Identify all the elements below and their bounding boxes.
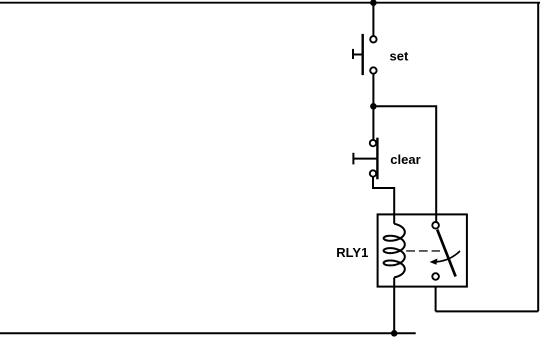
pushbutton set: actuator end <box>352 49 354 59</box>
wire switch top stem inside box <box>435 214 437 222</box>
wire bottom-right to switch <box>436 310 539 312</box>
relay RLY1 box <box>378 214 467 286</box>
wire coil top stem inside box <box>393 214 395 223</box>
node middle junction <box>370 103 377 110</box>
relay switch blade <box>437 230 455 277</box>
dashed link coil to switch <box>406 250 440 252</box>
relay switch bottom contact <box>432 273 439 280</box>
wire top rail <box>0 2 540 4</box>
relay coil <box>384 224 405 278</box>
pushbutton set: actuator <box>353 54 363 56</box>
pushbutton set: bar <box>362 34 364 75</box>
svg-text:set: set <box>390 49 409 64</box>
pushbutton clear: top terminal <box>370 140 376 146</box>
node top junction <box>370 0 377 6</box>
svg-text:clear: clear <box>390 152 420 167</box>
wire right rail <box>537 3 539 312</box>
pushbutton clear: bottom terminal <box>370 170 376 176</box>
relay switch top contact <box>432 222 439 229</box>
wire junction to clear button <box>372 106 374 140</box>
wire coil bottom stem <box>393 277 395 333</box>
relay switch motion arrow curve <box>435 251 460 262</box>
wire clear to relay coil <box>373 177 394 224</box>
relay switch motion arrow head <box>430 259 438 265</box>
wire switch bottom stem <box>435 280 437 312</box>
wire set to junction <box>372 74 374 107</box>
pushbutton clear: actuator <box>353 158 377 160</box>
svg-text:RLY1: RLY1 <box>336 245 368 260</box>
wire junction to relay switch <box>373 106 436 222</box>
wire bottom rail <box>0 332 416 334</box>
wire top to set button <box>372 3 374 36</box>
pushbutton set: bottom terminal <box>370 67 376 73</box>
pushbutton clear: bar <box>376 138 378 180</box>
node bottom junction <box>391 330 398 337</box>
pushbutton set: top terminal <box>370 36 376 42</box>
pushbutton clear: actuator end <box>352 153 354 165</box>
